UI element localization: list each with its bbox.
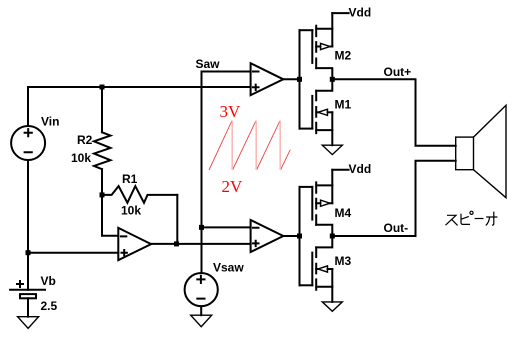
svg-text:Vsaw: Vsaw [213,261,244,275]
wire Out- rail [332,161,455,236]
voltage source Vin [11,126,45,160]
voltage source Vsaw [185,273,218,306]
node junction U2 output gate bus [297,77,302,82]
ground below M1 [322,145,342,154]
battery Vb [10,281,45,298]
svg-text:Vdd: Vdd [349,6,372,20]
svg-text:Vdd: Vdd [349,162,372,176]
speaker driver box [456,137,474,170]
node junction R1 feedback to U1 output [174,241,179,246]
wire R2 top lead [101,87,103,132]
svg-text:10k: 10k [121,204,141,218]
resistor R2 [94,132,111,169]
svg-text:Vin: Vin [41,115,59,129]
wire Vdd stub top [332,12,348,14]
svg-text:10k: 10k [71,151,91,165]
label speaker katakana [446,211,498,225]
node junction U3 output gate bus [297,234,302,239]
svg-text:Out-: Out- [384,221,409,235]
svg-text:M2: M2 [335,49,352,63]
svg-text:M4: M4 [335,206,352,220]
node junction top rail at R2 [100,85,105,90]
svg-text:3V: 3V [220,102,242,121]
speaker cone [474,105,507,197]
transistor M1 NMOS [300,79,333,145]
svg-text:R1: R1 [122,172,138,186]
wire battery to ground [27,298,29,316]
wire Saw node to U2 minus input [202,71,251,73]
node junction R2 R1 [100,192,105,197]
op-amp U2 comparator top [251,63,284,95]
wire R1 right lead down to output node [176,195,178,244]
wire R2 bottom lead [101,169,103,195]
node junction Out+ at M drains [330,77,335,82]
op-amp U1 [118,228,151,260]
op-amp U3 comparator bottom [251,220,284,252]
svg-text:M3: M3 [335,254,352,268]
wire Vdd stub bottom [332,169,348,171]
svg-text:Saw: Saw [196,57,221,71]
svg-text:2V: 2V [222,177,244,196]
transistor M2 PMOS [300,13,333,79]
node junction Out- at M drains [330,234,335,239]
wire U1 output to U3 plus input [151,243,251,245]
resistor R1 [102,186,177,203]
wire top rail Vin to U2 plus input [28,86,251,88]
svg-text:2.5: 2.5 [41,299,58,313]
wire Saw node vertical [201,72,203,274]
svg-text:Out+: Out+ [384,65,412,79]
wire Vin bottom lead down to battery [27,160,29,290]
wire to U3 minus input [202,226,251,228]
wire Out+ rail [332,79,455,145]
ground below Vsaw [191,315,212,327]
transistor M3 NMOS [300,236,333,302]
wire Vin top lead [27,87,29,126]
wire gate bus M2 M1 [299,30,301,128]
svg-text:M1: M1 [335,98,352,112]
wire junction down to U1 minus input [102,195,118,236]
wire U2 output to gate node [283,78,299,80]
wire U3 output to gate node [283,235,299,237]
svg-text:R2: R2 [77,133,93,147]
ground below battery [18,317,39,329]
ground below M3 [322,302,342,311]
wire Vsaw to ground [200,306,202,315]
svg-text:Vb: Vb [41,274,56,288]
wire to U1 plus input [28,252,118,254]
node junction at Vb rail to U1 plus [26,250,31,255]
sawtooth waveform [209,121,290,170]
node junction Vsaw line to U3 minus [199,225,204,230]
transistor M4 PMOS [300,170,333,236]
wire gate bus M4 M3 [299,187,301,285]
